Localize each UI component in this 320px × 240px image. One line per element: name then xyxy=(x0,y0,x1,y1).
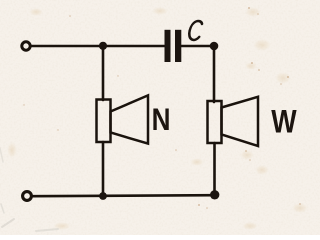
label C xyxy=(188,21,203,40)
faint corner scratches xyxy=(0,148,58,231)
loudspeaker N body xyxy=(97,100,111,143)
wire W branch lower xyxy=(213,143,216,195)
wire top right xyxy=(182,45,215,48)
loudspeaker W body xyxy=(208,101,222,143)
label N xyxy=(152,103,171,138)
wire top left xyxy=(31,45,164,48)
loudspeaker W horn xyxy=(222,97,259,146)
scan speckles xyxy=(23,7,301,209)
label W xyxy=(271,104,296,140)
loudspeaker N horn xyxy=(111,95,149,143)
node junction top N xyxy=(99,42,107,50)
svg-text:N: N xyxy=(152,103,171,138)
node junction top W xyxy=(210,42,219,51)
terminal input top xyxy=(22,42,30,50)
capacitor C plate right xyxy=(175,30,181,62)
wire N branch lower xyxy=(102,142,105,196)
wire N branch upper xyxy=(102,46,105,100)
terminal input bottom xyxy=(23,192,32,201)
svg-text:W: W xyxy=(271,104,296,140)
node junction bottom N xyxy=(99,192,107,200)
node junction bottom W xyxy=(210,190,219,199)
wire bottom xyxy=(32,195,214,196)
wire W branch upper xyxy=(213,46,216,102)
capacitor C plate left xyxy=(165,30,171,62)
